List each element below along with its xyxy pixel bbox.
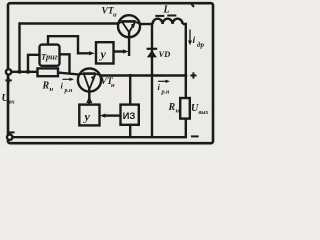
wire: ИЗ output to У2 with arrow <box>105 114 121 116</box>
scan noise overlay (decorative) <box>0 0 1 1</box>
label − input <box>8 131 15 133</box>
diode VD branch wire <box>151 24 153 137</box>
current arrow i_р.н (right) <box>158 80 167 82</box>
wire: VT_н base down to У2 with up arrow <box>88 88 90 105</box>
label + input <box>5 77 11 83</box>
trigger Триг <box>40 45 60 66</box>
wire: VT_и base lead down to У1 arrow junction <box>128 32 130 57</box>
node: output + junction <box>184 74 187 77</box>
wire: trigger top output to У1 input <box>48 36 90 53</box>
transistor VT_н (continuous) <box>78 68 101 91</box>
wire: main top rail from input riser to VT_и emitter <box>20 24 119 72</box>
inductor L (choke) <box>153 19 183 24</box>
resistor R_н (load) <box>180 98 190 119</box>
input terminal − <box>7 135 12 140</box>
wire: branch up from input rail to trigger left input <box>28 55 40 72</box>
wire: У1 output to VT_и base with arrow <box>114 50 124 52</box>
node: input rail junction B <box>26 70 30 74</box>
artifact tick top right <box>192 4 195 7</box>
wire: trigger right output down to emitter wire <box>60 54 70 73</box>
wire: input rail from + terminal to R <box>11 71 37 73</box>
wire: from choke down to output + node <box>183 24 186 98</box>
transistor VT_и (switching) <box>118 15 140 37</box>
border frame (decorative) <box>8 3 213 143</box>
node: input rail junction A <box>18 70 22 74</box>
wire: ИЗ bottom to negative rail <box>129 125 131 137</box>
wire: output line from VT_н collector to + node <box>101 74 186 76</box>
current arrow i_др <box>189 30 191 42</box>
wire: sense tap down to ИЗ <box>129 76 131 105</box>
wire: negative bottom rail <box>12 119 185 138</box>
input terminal + <box>6 69 11 74</box>
measuring element ИЗ <box>121 105 139 125</box>
label + output <box>190 72 196 78</box>
wire: from R to VT_н emitter <box>58 73 78 75</box>
node: VD to negative rail junction <box>151 135 154 138</box>
current arrow i_р.н (left) <box>63 78 71 80</box>
diode VD <box>147 48 158 50</box>
node: sense tap <box>129 74 132 77</box>
resistor R_н (series resistor) <box>38 68 59 76</box>
wire: collector rail to choke node <box>140 23 153 25</box>
label − output <box>191 135 199 137</box>
amplifier У2 <box>79 105 99 126</box>
amplifier У1 <box>96 42 114 63</box>
